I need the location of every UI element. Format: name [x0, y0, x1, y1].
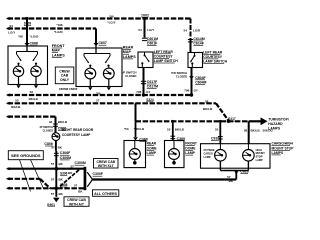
- svg-text:FRONT: FRONT: [52, 44, 65, 48]
- svg-text:C666M C666F: C666M C666F: [59, 87, 78, 91]
- svg-text:C668: C668: [30, 42, 38, 46]
- svg-text:*56: *56: [109, 14, 114, 18]
- svg-text:LAMP SWITCH: LAMP SWITCH: [154, 59, 178, 63]
- svg-text:COURTESY LAMP: COURTESY LAMP: [62, 133, 91, 137]
- svg-text:57: 57: [51, 162, 55, 166]
- svg-text:C604F: C604F: [195, 76, 206, 80]
- svg-text:C300M: C300M: [75, 161, 86, 165]
- svg-text:*98: *98: [18, 35, 23, 39]
- svg-text:C910: C910: [211, 137, 219, 141]
- svg-text:LEFT REAR: LEFT REAR: [154, 50, 174, 54]
- svg-text:MOUNT STOP: MOUNT STOP: [272, 146, 295, 150]
- svg-text:GY: GY: [194, 89, 198, 93]
- svg-text:LAMPS: LAMPS: [272, 151, 284, 155]
- svg-text:53: 53: [15, 98, 19, 102]
- svg-text:LG/R: LG/R: [193, 28, 201, 32]
- svg-text:57: 57: [51, 192, 55, 196]
- svg-text:706: 706: [136, 90, 141, 94]
- svg-text:53: 53: [215, 128, 219, 132]
- svg-text:57: 57: [74, 184, 78, 188]
- svg-text:FRONT: FRONT: [185, 142, 198, 146]
- svg-text:796: 796: [184, 89, 189, 93]
- svg-text:C617M: C617M: [147, 85, 158, 89]
- svg-text:C300F: C300F: [93, 172, 104, 176]
- svg-text:LEFT REAR: LEFT REAR: [203, 50, 223, 54]
- svg-text:MAP: MAP: [123, 50, 132, 54]
- svg-text:57: 57: [51, 178, 55, 182]
- svg-text:WITH A/T: WITH A/T: [69, 202, 85, 206]
- svg-text:*53: *53: [124, 127, 129, 131]
- svg-text:LAMP SWITCH: LAMP SWITCH: [203, 60, 227, 64]
- svg-text:C601M: C601M: [147, 37, 158, 41]
- svg-text:S306: S306: [60, 172, 68, 176]
- svg-text:S317: S317: [228, 117, 236, 121]
- svg-text:C604M: C604M: [195, 81, 206, 85]
- svg-text:57: 57: [51, 146, 55, 150]
- svg-text:COURTESY: COURTESY: [203, 55, 223, 59]
- svg-text:508 DG: 508 DG: [263, 129, 274, 133]
- svg-text:*196: *196: [56, 23, 63, 27]
- svg-text:C617F: C617F: [147, 80, 158, 84]
- svg-text:*LG/O: *LG/O: [30, 35, 39, 39]
- svg-text:BK/LB: BK/LB: [11, 105, 21, 109]
- svg-text:*LG/O: *LG/O: [54, 30, 63, 34]
- svg-text:54: 54: [184, 28, 188, 32]
- svg-text:53: 53: [167, 127, 171, 131]
- svg-text:RIGHT REAR DOOR: RIGHT REAR DOOR: [62, 128, 94, 132]
- svg-text:C614F: C614F: [193, 42, 204, 46]
- svg-text:REAR: REAR: [123, 46, 134, 50]
- svg-text:LAMP: LAMP: [147, 151, 157, 155]
- svg-text:58: 58: [244, 129, 248, 133]
- svg-text:BK/LB: BK/LB: [175, 127, 185, 131]
- svg-text:HAZARD: HAZARD: [268, 122, 283, 126]
- svg-text:LAMP: LAMP: [185, 151, 195, 155]
- svg-text:LAMPS: LAMPS: [52, 53, 65, 57]
- svg-text:CLOSED: CLOSED: [125, 74, 136, 78]
- svg-text:93: 93: [49, 120, 53, 124]
- svg-text:ONLY: ONLY: [60, 78, 70, 82]
- svg-text:53: 53: [30, 90, 34, 94]
- svg-text:LAMP: LAMP: [204, 156, 211, 159]
- svg-text:DOME: DOME: [185, 146, 196, 150]
- svg-text:LG/Y: LG/Y: [147, 28, 154, 32]
- svg-text:SEE GROUNDS: SEE GROUNDS: [11, 153, 41, 158]
- svg-text:58: 58: [205, 99, 209, 103]
- svg-text:54: 54: [138, 28, 142, 32]
- svg-text:C601F: C601F: [147, 42, 158, 46]
- svg-text:WITH XLT: WITH XLT: [98, 164, 115, 168]
- svg-text:DOME: DOME: [147, 146, 158, 150]
- svg-text:BK/LB: BK/LB: [251, 129, 261, 133]
- svg-text:BK/LB: BK/LB: [58, 120, 68, 124]
- svg-text:LAMPS: LAMPS: [123, 55, 136, 59]
- svg-text:LAMP: LAMP: [256, 159, 263, 162]
- svg-text:CLOSED: CLOSED: [43, 129, 54, 132]
- svg-text:*LG/Y: *LG/Y: [107, 20, 115, 24]
- svg-text:GY: GY: [146, 90, 150, 94]
- svg-text:G901: G901: [47, 203, 55, 207]
- svg-text:C306M: C306M: [60, 156, 71, 160]
- svg-text:CLOSED: CLOSED: [176, 74, 187, 78]
- svg-text:1002: 1002: [141, 13, 149, 17]
- svg-text:MAP: MAP: [52, 49, 61, 53]
- svg-text:TURN/STOP/: TURN/STOP/: [268, 118, 289, 122]
- svg-text:57: 57: [71, 165, 75, 169]
- svg-text:S509: S509: [24, 22, 32, 26]
- svg-text:ALL OTHERS: ALL OTHERS: [94, 192, 117, 196]
- svg-text:C614M: C614M: [193, 37, 204, 41]
- svg-text:BK/LB: BK/LB: [203, 107, 213, 111]
- svg-text:C607: C607: [99, 41, 107, 45]
- svg-text:94: 94: [10, 24, 14, 28]
- svg-text:COURTESY: COURTESY: [154, 54, 174, 58]
- svg-text:706: 706: [96, 91, 101, 95]
- svg-text:LG/Y: LG/Y: [8, 30, 15, 34]
- svg-text:C306F: C306F: [60, 151, 71, 155]
- svg-text:S324: S324: [146, 98, 154, 102]
- svg-text:BK/LB: BK/LB: [29, 97, 39, 101]
- svg-text:REAR: REAR: [147, 142, 157, 146]
- svg-text:CARGO/HIGH: CARGO/HIGH: [272, 142, 294, 146]
- svg-text:C616: C616: [240, 169, 248, 173]
